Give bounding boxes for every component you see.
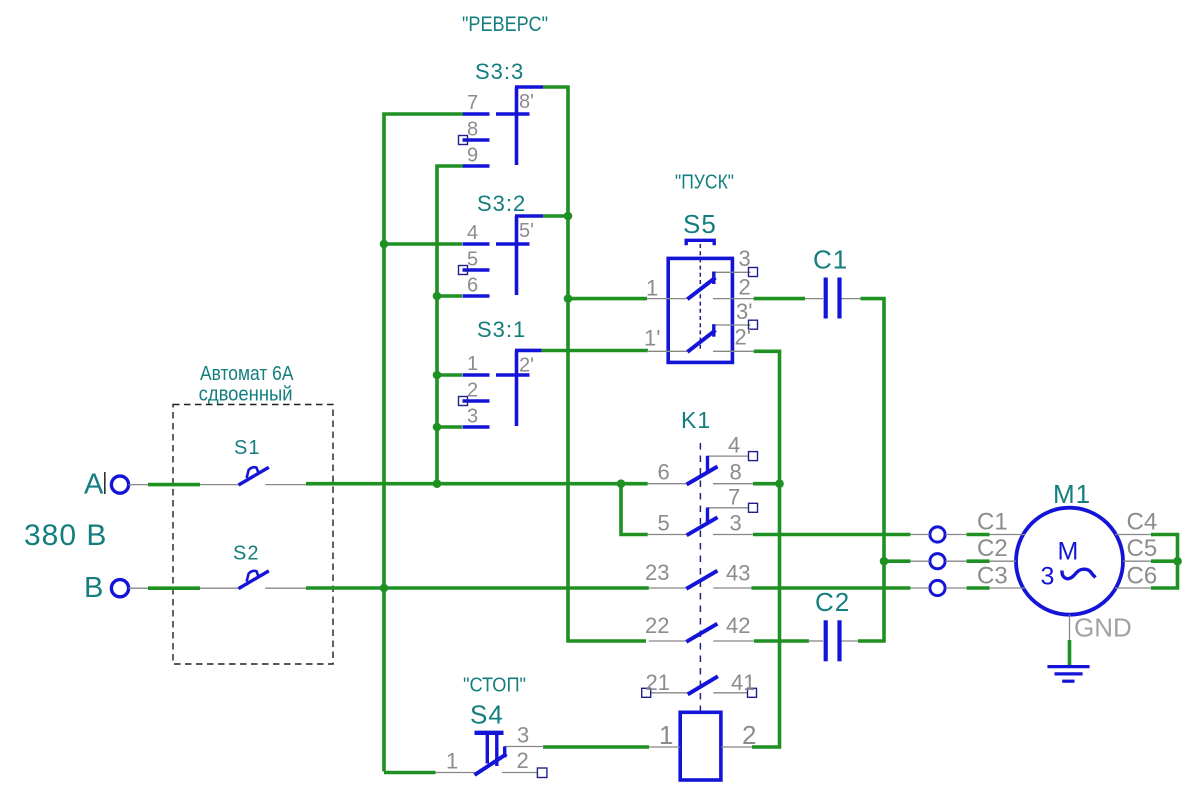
wire phase A to K1	[306, 482, 648, 486]
S1 armature	[239, 467, 269, 485]
S4 actuator leg right	[495, 735, 498, 766]
S3:3 pin 8 line	[463, 138, 490, 142]
S5 actuator cap	[686, 240, 714, 245]
S3:2 pin 6 line	[463, 294, 490, 298]
push button S5	[644, 209, 758, 362]
svg-text:K1: K1	[681, 407, 711, 433]
wire left rail bottom to S4 pin 1	[384, 771, 436, 775]
S4 actuator cap	[475, 731, 504, 735]
svg-text:6: 6	[658, 460, 670, 485]
junction left rail / phase B	[380, 584, 389, 593]
wire motor row C3 inner	[967, 586, 990, 590]
S3:2 pin 5 line	[463, 268, 490, 272]
S5 pole2 contact tick	[712, 324, 715, 337]
svg-text:"ПУСК": "ПУСК"	[675, 172, 734, 194]
S3:2 unconnected terminal square pin 5	[459, 266, 468, 275]
S3:1 pin 1 line	[463, 373, 490, 377]
M1 lead C5	[1123, 560, 1151, 562]
junction rail / phase A	[433, 479, 442, 488]
svg-text:сдвоенный: сдвоенный	[199, 384, 293, 406]
C1 lead left	[804, 298, 823, 300]
text cursor artifact	[104, 472, 106, 494]
S5 pole1 armature	[687, 278, 715, 300]
S3:1 common bracket to pin 2'	[515, 349, 542, 353]
S5 actuator dashed stem	[699, 244, 701, 350]
junction rail / pin 6	[433, 292, 442, 301]
S3:3 common vertical	[515, 87, 519, 165]
S4 lead pin 2	[502, 772, 537, 774]
K1 lead pin 6	[648, 483, 687, 485]
wire K1 pin 3 to motor C1	[753, 533, 910, 537]
S2 armature	[239, 571, 269, 589]
svg-text:5': 5'	[519, 220, 534, 242]
dashed enclosure box	[173, 405, 333, 665]
K1 contact 4 tick	[706, 456, 709, 471]
junction rail / pin 3	[433, 423, 442, 432]
svg-text:8': 8'	[519, 91, 534, 113]
svg-text:Автомат 6А: Автомат 6А	[200, 363, 294, 385]
node B terminal	[84, 572, 129, 604]
K1 contact 22-42 armature	[686, 624, 717, 642]
M1 terminal circle C2	[930, 554, 945, 569]
K1 terminal square pin 21	[642, 688, 651, 697]
K1 lead pin 7	[708, 507, 749, 509]
S3:1 wiper arm	[496, 373, 530, 377]
C1 lead right	[841, 298, 861, 300]
svg-text:S3:2: S3:2	[477, 191, 526, 216]
node A terminal	[84, 469, 129, 501]
svg-text:22: 22	[645, 613, 669, 638]
svg-text:S3:3: S3:3	[475, 59, 524, 84]
junction rail / pin 1	[433, 371, 442, 380]
K1 lead pin 22	[649, 640, 686, 642]
S4 actuator leg left	[486, 735, 489, 764]
M1 terminal circle C1	[930, 527, 945, 542]
wire rail S3 pins 9-6-1-3	[437, 166, 463, 484]
M1 lead C6	[1115, 587, 1151, 589]
svg-text:2: 2	[739, 275, 751, 300]
svg-text:2: 2	[467, 380, 478, 402]
svg-text:"РЕВЕРС": "РЕВЕРС"	[462, 13, 548, 36]
C1 plate left	[824, 278, 828, 319]
relay coil K1	[649, 712, 756, 780]
svg-text:S3:1: S3:1	[477, 317, 526, 342]
wire S3:1 common 2' to S5 pin 1'	[542, 349, 648, 353]
K1 contact 7 tick	[706, 508, 709, 523]
S2 lead mid	[200, 587, 240, 589]
svg-text:B: B	[84, 572, 103, 604]
K1 lead pin 5	[648, 534, 687, 536]
M1 terminal circle C3	[930, 580, 945, 595]
S3:3 unconnected terminal square pin 8	[459, 136, 468, 145]
M1 lead C3 c	[990, 587, 1026, 589]
svg-text:1: 1	[659, 720, 673, 750]
svg-text:3: 3	[739, 246, 751, 271]
S5 lead pin 2'	[713, 350, 754, 352]
M1 lead C2 c	[990, 560, 1017, 562]
capacitor C2	[808, 587, 858, 661]
S4 terminal square pin 2	[537, 768, 547, 778]
svg-text:23: 23	[645, 560, 669, 585]
wire GND green	[1068, 640, 1072, 665]
wire branch S3:1 pin 3	[437, 425, 462, 429]
S4 contact link to pin 3	[503, 747, 506, 758]
S5 body box	[668, 258, 732, 362]
wire S4 pin3 to coil pin 1	[543, 745, 649, 749]
svg-text:3: 3	[467, 406, 478, 428]
K1 coil body	[680, 712, 721, 780]
svg-text:2': 2'	[519, 355, 534, 377]
S5 terminal square pin 3'	[749, 320, 758, 329]
K1 lead pin 42	[713, 640, 754, 642]
svg-text:M1: M1	[1053, 479, 1091, 509]
K1 mechanical link dashed	[699, 443, 701, 712]
C1 plate right	[837, 278, 841, 319]
wire S3:3 pin7 from left rail	[384, 114, 463, 772]
svg-text:3: 3	[730, 511, 742, 536]
svg-text:2: 2	[742, 720, 756, 750]
svg-text:S4: S4	[470, 700, 504, 730]
wire branch to S5 pin 1	[568, 297, 647, 301]
svg-text:5: 5	[658, 511, 670, 536]
svg-text:43: 43	[726, 561, 750, 586]
wire rail to motor C2	[884, 559, 910, 563]
svg-text:C2: C2	[815, 587, 850, 617]
S2 lead left	[129, 587, 148, 589]
K1 lead pin 8	[713, 483, 753, 485]
svg-text:1: 1	[446, 749, 458, 774]
C2 plate left	[824, 620, 828, 661]
breaker S2	[129, 543, 307, 589]
S4 lead pin 3	[504, 746, 544, 748]
svg-text:41: 41	[731, 670, 755, 695]
capacitor C1	[804, 245, 861, 319]
svg-text:C4: C4	[1127, 509, 1158, 536]
S5 lead pin 1	[647, 298, 687, 300]
svg-text:C1: C1	[813, 245, 848, 275]
S3:2 common bracket to pin 5'	[515, 214, 543, 218]
wire phase B to K1 pin 23	[306, 586, 649, 590]
S3:1 pin 2 line	[463, 399, 490, 403]
svg-text:C5: C5	[1127, 535, 1158, 562]
K1 lead pin 41	[713, 692, 748, 694]
S5 lead pin 3'	[714, 324, 751, 326]
M1 lead C2 b	[946, 560, 967, 562]
S5 pole2 armature	[687, 330, 715, 352]
S3:3 common bracket to pin 8'	[515, 85, 543, 89]
S3:2 common vertical	[515, 216, 519, 295]
switch S3:1	[459, 317, 542, 428]
svg-text:1: 1	[646, 276, 658, 301]
C2 lead right	[841, 640, 858, 642]
svg-text:C1: C1	[977, 509, 1008, 536]
M1 lead C1 c	[990, 534, 1026, 536]
C2 lead left	[808, 640, 823, 642]
svg-text:1': 1'	[644, 326, 660, 351]
wire branch S3:2 common 5'	[543, 214, 568, 218]
svg-text:9: 9	[467, 145, 478, 167]
svg-text:8: 8	[467, 119, 478, 141]
svg-text:"СТОП": "СТОП"	[463, 675, 526, 697]
K1 terminal square pin 7	[749, 503, 758, 512]
wire K1 pin 43 to motor C3	[751, 586, 910, 590]
M1 lead C1 b	[946, 534, 967, 536]
svg-text:M: M	[1058, 538, 1079, 566]
svg-text:4: 4	[728, 433, 740, 458]
M1 lead C2 a	[910, 560, 929, 562]
svg-text:S5: S5	[683, 209, 717, 239]
S3:3 wiper arm	[496, 112, 530, 116]
S5 pole1 contact tick	[712, 272, 715, 285]
wire S3:2 pin4 branch	[384, 242, 462, 246]
S5 lead pin 3	[714, 271, 751, 273]
svg-text:3': 3'	[736, 299, 752, 324]
switch S3:3	[459, 59, 544, 167]
wire motor C5 stub	[1151, 559, 1178, 563]
wire motor row C1 inner	[967, 533, 990, 537]
S3:3 pin 7 line	[463, 112, 490, 116]
S2 breaker flag	[247, 571, 259, 582]
S3:1 pin 3 line	[463, 425, 490, 429]
svg-text:8: 8	[730, 460, 742, 485]
svg-text:2': 2'	[735, 325, 751, 350]
K1 contact 23-43 armature	[686, 571, 717, 589]
S1 lead left	[129, 484, 148, 486]
S4 armature	[475, 754, 507, 775]
K1 contact 21-41 armature	[688, 676, 718, 694]
S5 lead pin 1'	[647, 350, 687, 352]
motor M1	[910, 479, 1157, 643]
junction C5 loop	[1173, 557, 1182, 566]
svg-text:C2: C2	[977, 535, 1008, 562]
wire motor row C2 inner	[967, 559, 990, 563]
wire A green seg1	[148, 483, 200, 487]
S3:1 common vertical	[515, 350, 519, 426]
S1 lead right	[265, 484, 306, 486]
svg-text:3: 3	[1041, 563, 1055, 591]
svg-text:1: 1	[467, 353, 478, 375]
svg-text:21: 21	[646, 670, 670, 695]
svg-text:5: 5	[467, 249, 478, 271]
ground symbol	[1047, 667, 1089, 682]
wire K1 pin 42 to C2	[754, 639, 809, 643]
K1 contact 5-3 armature	[687, 517, 718, 535]
K1 lead pin 4	[708, 455, 749, 457]
wire S5 pin2 to C1	[754, 297, 805, 301]
K1 coil lead 1	[649, 746, 680, 748]
M1 lead GND	[1069, 615, 1071, 641]
svg-text:C6: C6	[1127, 563, 1158, 590]
M1 lead C4	[1115, 534, 1151, 536]
relay contacts K1	[642, 407, 758, 712]
K1 coil lead 2	[721, 746, 752, 748]
K1 lead pin 43	[713, 587, 751, 589]
label "Автомат 6А сдвоенный"	[199, 363, 294, 406]
svg-text:7: 7	[728, 484, 740, 509]
push button S4	[435, 700, 547, 778]
junction phase A / drop to pin 5	[617, 479, 626, 488]
C2 plate right	[837, 620, 841, 661]
S3:1 unconnected terminal square pin 2	[459, 397, 468, 406]
M1 body circle	[1016, 508, 1123, 615]
junction common rail / 5'	[564, 212, 573, 221]
svg-text:2: 2	[517, 748, 529, 773]
junction S5-2' rail / K1 pin 8 row	[775, 479, 784, 488]
S1 lead mid	[200, 484, 240, 486]
K1 terminal square pin 4	[749, 452, 758, 461]
S2 lead right	[265, 587, 306, 589]
S1 breaker flag	[247, 467, 259, 478]
svg-text:7: 7	[467, 92, 478, 114]
wire K1 pin 8 to rail	[753, 482, 780, 486]
K1 terminal square pin 41	[748, 688, 757, 697]
svg-text:42: 42	[726, 613, 750, 638]
junction common rail / S5 pin 1	[564, 294, 573, 303]
junction left rail / pin4 branch	[380, 240, 389, 249]
M1 phase tilde	[1062, 569, 1096, 578]
svg-text:S1: S1	[234, 437, 260, 459]
svg-text:3: 3	[517, 723, 529, 748]
S3:3 pin 9 line	[463, 164, 490, 168]
S3:2 wiper arm	[496, 242, 530, 246]
switch S3:2	[459, 191, 544, 297]
svg-text:4: 4	[467, 222, 478, 244]
junction right rail / motor C2 row	[880, 557, 889, 566]
S4 lead pin 1	[435, 772, 475, 774]
svg-text:GND: GND	[1074, 613, 1132, 643]
K1 lead pin 23	[649, 587, 686, 589]
wire B green seg1	[148, 586, 200, 590]
M1 lead C1 a	[910, 534, 929, 536]
wire C1 to right rail down to C2	[858, 299, 884, 641]
M1 lead C3 a	[910, 587, 929, 589]
wire drop to K1 pin 5	[621, 484, 648, 535]
K1 lead pin 21	[650, 692, 688, 694]
wire S5 pin2' to K1 rail	[752, 351, 780, 747]
K1 lead pin 3	[713, 534, 753, 536]
K1 contact 6-8 armature	[687, 467, 718, 485]
wire motor C4-C5-C6 loop	[1151, 535, 1178, 589]
M1 lead C3 b	[946, 587, 967, 589]
wire branch S3:2 pin 6	[437, 294, 462, 298]
wire common rail S3:3 8' down to K1 pin 22	[543, 87, 646, 641]
svg-text:380 В: 380 В	[24, 519, 107, 552]
breaker S1	[129, 437, 307, 485]
wire branch S3:1 pin 1	[437, 373, 462, 377]
svg-text:6: 6	[467, 275, 478, 297]
S5 lead pin 2	[713, 298, 754, 300]
S3:2 pin 4 line	[463, 242, 490, 246]
svg-text:C3: C3	[977, 563, 1008, 590]
svg-text:S2: S2	[233, 543, 259, 565]
svg-text:A: A	[84, 469, 104, 501]
S5 terminal square pin 3	[749, 268, 758, 277]
